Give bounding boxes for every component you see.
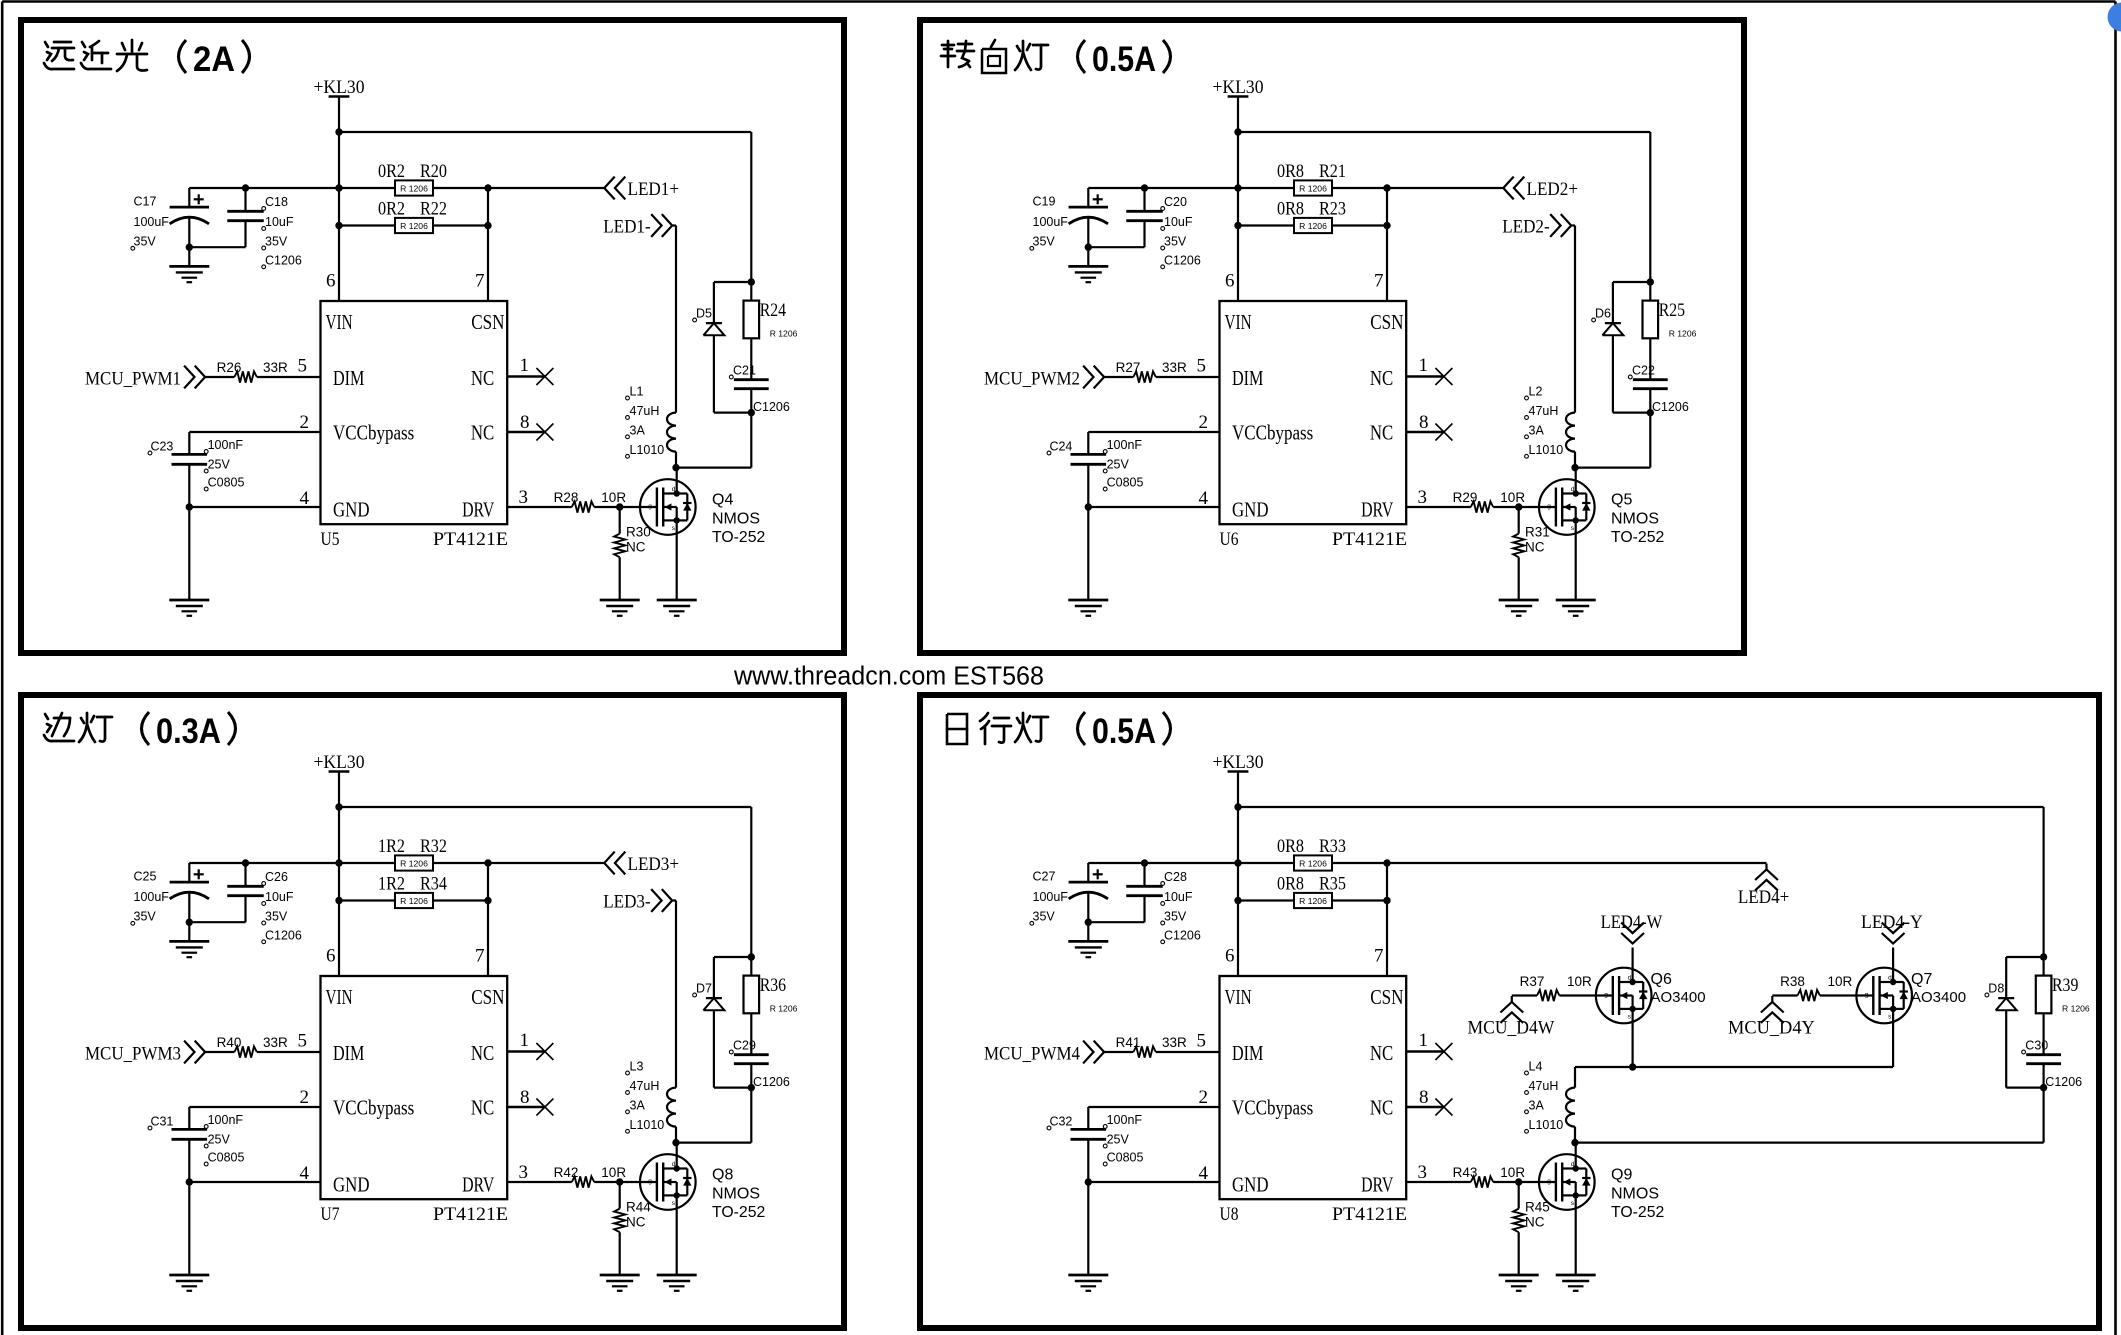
svg-text:C1206: C1206 [1652,400,1689,414]
svg-text:NC: NC [1370,421,1393,445]
svg-text:R41: R41 [1116,1035,1141,1050]
svg-text:0R8: 0R8 [1277,161,1304,182]
svg-text:25V: 25V [208,1133,231,1147]
svg-text:Q7: Q7 [1911,971,1932,988]
svg-text:C19: C19 [1033,195,1056,209]
svg-text:R 1206: R 1206 [1299,183,1327,193]
svg-text:+KL30: +KL30 [1213,77,1264,98]
svg-text:5: 5 [298,1031,308,1052]
svg-text:L1010: L1010 [1529,443,1564,457]
svg-text:CSN: CSN [471,310,504,334]
svg-text:LED2-: LED2- [1502,217,1550,238]
svg-text:LED3-: LED3- [603,892,651,913]
svg-text:0.3A: 0.3A [156,712,221,751]
svg-text:MCU_PWM1: MCU_PWM1 [85,369,181,390]
svg-text:C0805: C0805 [1107,476,1144,490]
svg-text:C1206: C1206 [265,928,302,942]
svg-text:C32: C32 [1049,1115,1072,1129]
svg-text:R 1206: R 1206 [1299,221,1327,231]
svg-text:5: 5 [1197,1031,1207,1052]
svg-text:NC: NC [1370,366,1393,390]
svg-text:L2: L2 [1529,385,1543,399]
svg-text:6: 6 [326,271,336,292]
svg-text:C1206: C1206 [753,1075,790,1089]
svg-text:25V: 25V [1107,1133,1130,1147]
svg-text:VCCbypass: VCCbypass [1232,421,1313,445]
svg-text:DIM: DIM [333,366,365,390]
svg-text:1: 1 [1419,1030,1429,1051]
svg-text:NC: NC [1370,1096,1393,1120]
svg-text:NC: NC [626,1215,646,1230]
svg-text:NMOS: NMOS [1611,1186,1659,1203]
svg-text:C1206: C1206 [2045,1075,2082,1089]
svg-text:R 1206: R 1206 [400,896,428,906]
svg-text:NC: NC [1525,540,1545,555]
svg-text:3A: 3A [630,1098,646,1112]
svg-text:DIM: DIM [1232,1041,1264,1065]
svg-text:d: d [672,486,676,493]
svg-text:C1206: C1206 [1164,928,1201,942]
svg-text:4: 4 [1199,488,1209,509]
svg-text:GND: GND [1232,498,1269,522]
svg-text:35V: 35V [265,235,288,249]
svg-text:AO3400: AO3400 [1651,989,1706,1006]
svg-text:g: g [648,1178,652,1185]
svg-text:R27: R27 [1116,360,1141,375]
svg-text:NMOS: NMOS [1611,511,1659,528]
svg-text:L1010: L1010 [630,443,665,457]
svg-text:25V: 25V [208,458,231,472]
svg-text:100nF: 100nF [208,438,244,452]
svg-text:7: 7 [475,946,485,967]
svg-text:2: 2 [1199,1087,1209,1108]
svg-text:R26: R26 [217,360,242,375]
svg-text:10R: 10R [1500,1165,1525,1180]
svg-text:DRV: DRV [1361,1173,1393,1197]
svg-text:33R: 33R [263,1035,288,1050]
svg-text:10uF: 10uF [1164,890,1193,904]
svg-text:6: 6 [326,946,336,967]
svg-text:Q5: Q5 [1611,492,1632,509]
svg-text:VIN: VIN [326,985,353,1009]
svg-text:GND: GND [333,1173,370,1197]
svg-text:C31: C31 [150,1115,173,1129]
svg-text:R38: R38 [1780,974,1805,989]
svg-text:7: 7 [1374,946,1384,967]
svg-text:U7: U7 [321,1204,340,1225]
svg-text:NC: NC [471,1041,494,1065]
svg-text:CSN: CSN [471,985,504,1009]
svg-text:10R: 10R [601,1165,626,1180]
svg-text:C0805: C0805 [208,1151,245,1165]
svg-text:R39: R39 [2052,975,2078,996]
svg-text:d: d [1571,1161,1575,1168]
svg-text:NC: NC [626,540,646,555]
svg-text:NC: NC [1525,1215,1545,1230]
svg-text:35V: 35V [1164,235,1187,249]
svg-text:L1010: L1010 [630,1118,665,1132]
svg-text:d: d [672,1161,676,1168]
svg-text:LED1-: LED1- [603,217,651,238]
svg-text:R23: R23 [1319,199,1346,220]
svg-text:d: d [1888,975,1892,982]
svg-text:7: 7 [475,271,485,292]
svg-text:R 1206: R 1206 [400,221,428,231]
svg-text:33R: 33R [263,360,288,375]
svg-text:R 1206: R 1206 [1299,896,1327,906]
svg-text:d: d [1628,975,1632,982]
svg-text:R24: R24 [760,300,787,321]
svg-text:g: g [1547,503,1551,510]
svg-text:100nF: 100nF [208,1113,244,1127]
svg-text:C27: C27 [1033,870,1056,884]
svg-text:U8: U8 [1220,1204,1239,1225]
svg-text:10uF: 10uF [265,215,294,229]
svg-text:35V: 35V [1164,910,1187,924]
svg-text:5: 5 [1197,356,1207,377]
svg-text:DIM: DIM [333,1041,365,1065]
svg-text:R36: R36 [760,975,786,996]
svg-text:47uH: 47uH [630,1079,660,1093]
svg-text:C17: C17 [134,195,157,209]
svg-text:C0805: C0805 [208,476,245,490]
svg-text:LED4+: LED4+ [1738,887,1790,908]
svg-text:Q4: Q4 [712,492,733,509]
svg-text:L3: L3 [630,1060,644,1074]
svg-text:3: 3 [1418,487,1428,508]
svg-text:1R2: 1R2 [378,874,405,895]
svg-text:U5: U5 [321,529,340,550]
svg-text:CSN: CSN [1370,310,1403,334]
svg-text:R21: R21 [1319,161,1346,182]
svg-text:C28: C28 [1164,870,1187,884]
svg-text:DRV: DRV [462,498,494,522]
svg-text:3A: 3A [1529,1098,1545,1112]
svg-text:3: 3 [519,487,529,508]
svg-text:NC: NC [471,1096,494,1120]
svg-text:25V: 25V [1107,458,1130,472]
svg-text:0R2: 0R2 [378,199,405,220]
svg-text:8: 8 [1419,1087,1429,1108]
svg-text:L1010: L1010 [1529,1118,1564,1132]
svg-text:100uF: 100uF [1033,890,1069,904]
svg-text:4: 4 [1199,1163,1209,1184]
svg-text:R42: R42 [554,1165,579,1180]
svg-text:g: g [648,503,652,510]
svg-text:DIM: DIM [1232,366,1264,390]
svg-text:6: 6 [1225,946,1235,967]
svg-text:0.5A: 0.5A [1092,712,1156,751]
svg-text:NC: NC [471,421,494,445]
svg-text:35V: 35V [1033,910,1056,924]
svg-text:R 1206: R 1206 [770,1004,798,1014]
svg-text:35V: 35V [134,910,157,924]
svg-text:LED1+: LED1+ [628,179,680,200]
svg-text:PT4121E: PT4121E [433,1204,508,1225]
svg-text:VIN: VIN [1225,310,1252,334]
svg-text:PT4121E: PT4121E [1332,529,1407,550]
svg-text:R43: R43 [1453,1165,1478,1180]
svg-text:C0805: C0805 [1107,1151,1144,1165]
svg-text:D6: D6 [1595,307,1611,321]
svg-text:R 1206: R 1206 [1299,858,1327,868]
svg-text:0R8: 0R8 [1277,836,1304,857]
svg-text:U6: U6 [1220,529,1239,550]
svg-text:TO-252: TO-252 [1611,1204,1664,1221]
svg-text:10R: 10R [601,490,626,505]
svg-text:LED4-W: LED4-W [1601,912,1663,933]
svg-text:0R2: 0R2 [378,161,405,182]
svg-text:MCU_PWM2: MCU_PWM2 [984,369,1080,390]
svg-text:R25: R25 [1659,300,1685,321]
svg-text:C26: C26 [265,870,288,884]
svg-text:2A: 2A [193,40,235,79]
svg-text:C30: C30 [2025,1039,2048,1053]
svg-text:10uF: 10uF [1164,215,1193,229]
svg-text:TO-252: TO-252 [712,529,765,546]
svg-text:R 1206: R 1206 [770,329,798,339]
svg-text:10R: 10R [1828,974,1853,989]
svg-text:100nF: 100nF [1107,438,1143,452]
svg-text:C21: C21 [733,364,756,378]
svg-text:VIN: VIN [326,310,353,334]
svg-text:R20: R20 [420,161,447,182]
svg-text:4: 4 [300,1163,310,1184]
svg-text:R 1206: R 1206 [400,858,428,868]
svg-text:47uH: 47uH [1529,404,1559,418]
svg-text:LED4-Y: LED4-Y [1861,912,1923,933]
svg-text:R35: R35 [1319,874,1346,895]
svg-text:10uF: 10uF [265,890,294,904]
svg-text:VIN: VIN [1225,985,1252,1009]
svg-text:0R8: 0R8 [1277,199,1304,220]
svg-text:35V: 35V [1033,235,1056,249]
svg-text:D5: D5 [696,307,712,321]
svg-text:47uH: 47uH [1529,1079,1559,1093]
svg-text:TO-252: TO-252 [712,1204,765,1221]
svg-text:PT4121E: PT4121E [433,529,508,550]
svg-text:MCU_D4W: MCU_D4W [1468,1018,1555,1039]
svg-text:C1206: C1206 [265,253,302,267]
svg-text:PT4121E: PT4121E [1332,1204,1407,1225]
svg-text:GND: GND [1232,1173,1269,1197]
svg-text:+KL30: +KL30 [314,77,365,98]
svg-text:DRV: DRV [462,1173,494,1197]
svg-text:2: 2 [1199,412,1209,433]
svg-text:35V: 35V [265,910,288,924]
svg-text:NC: NC [1370,1041,1393,1065]
svg-text:+KL30: +KL30 [1213,752,1264,773]
svg-text:GND: GND [333,498,370,522]
svg-text:L4: L4 [1529,1060,1543,1074]
svg-text:D8: D8 [1988,982,2004,996]
svg-text:C29: C29 [733,1039,756,1053]
svg-text:R37: R37 [1520,974,1545,989]
svg-text:Q8: Q8 [712,1167,733,1184]
svg-text:8: 8 [520,412,530,433]
svg-text:1: 1 [520,355,530,376]
svg-text:C20: C20 [1164,195,1187,209]
svg-text:VCCbypass: VCCbypass [1232,1096,1313,1120]
svg-text:L1: L1 [630,385,644,399]
svg-text:10R: 10R [1567,974,1592,989]
svg-text:NMOS: NMOS [712,511,760,528]
svg-text:100uF: 100uF [1033,215,1069,229]
svg-text:AO3400: AO3400 [1911,989,1966,1006]
svg-text:R 1206: R 1206 [400,183,428,193]
svg-text:6: 6 [1225,271,1235,292]
svg-text:www.threadcn.com EST568: www.threadcn.com EST568 [733,663,1044,691]
svg-text:LED2+: LED2+ [1527,179,1579,200]
svg-text:+KL30: +KL30 [314,752,365,773]
svg-text:3: 3 [1418,1162,1428,1183]
svg-text:R28: R28 [554,490,579,505]
svg-text:C24: C24 [1049,440,1072,454]
svg-text:R22: R22 [420,199,447,220]
svg-text:C23: C23 [150,440,173,454]
svg-text:100uF: 100uF [134,890,170,904]
svg-text:NC: NC [471,366,494,390]
svg-text:47uH: 47uH [630,404,660,418]
svg-text:R 1206: R 1206 [2062,1004,2090,1014]
svg-text:3A: 3A [630,423,646,437]
svg-text:R33: R33 [1319,836,1346,857]
svg-text:100nF: 100nF [1107,1113,1143,1127]
svg-text:1: 1 [1419,355,1429,376]
svg-text:d: d [1571,486,1575,493]
svg-text:1R2: 1R2 [378,836,405,857]
svg-text:10R: 10R [1500,490,1525,505]
svg-text:LED3+: LED3+ [628,854,680,875]
svg-text:0R8: 0R8 [1277,874,1304,895]
svg-text:VCCbypass: VCCbypass [333,1096,414,1120]
svg-text:R40: R40 [217,1035,242,1050]
svg-text:C22: C22 [1632,364,1655,378]
svg-text:MCU_D4Y: MCU_D4Y [1728,1018,1815,1039]
svg-text:3: 3 [519,1162,529,1183]
svg-text:1: 1 [520,1030,530,1051]
svg-text:D7: D7 [696,982,712,996]
svg-text:0.5A: 0.5A [1092,40,1156,79]
svg-text:33R: 33R [1162,360,1187,375]
svg-text:TO-252: TO-252 [1611,529,1664,546]
svg-text:Q6: Q6 [1651,971,1672,988]
svg-text:7: 7 [1374,271,1384,292]
svg-text:4: 4 [300,488,310,509]
svg-text:8: 8 [520,1087,530,1108]
svg-text:CSN: CSN [1370,985,1403,1009]
svg-text:DRV: DRV [1361,498,1393,522]
svg-text:R32: R32 [420,836,447,857]
svg-text:C25: C25 [134,870,157,884]
svg-text:8: 8 [1419,412,1429,433]
svg-text:Q9: Q9 [1611,1167,1632,1184]
svg-text:3A: 3A [1529,423,1545,437]
svg-text:2: 2 [300,1087,310,1108]
svg-text:C18: C18 [265,195,288,209]
svg-text:g: g [1547,1178,1551,1185]
svg-text:C1206: C1206 [753,400,790,414]
svg-text:5: 5 [298,356,308,377]
svg-text:35V: 35V [134,235,157,249]
svg-text:2: 2 [300,412,310,433]
svg-text:33R: 33R [1162,1035,1187,1050]
svg-text:100uF: 100uF [134,215,170,229]
svg-text:NMOS: NMOS [712,1186,760,1203]
svg-text:R34: R34 [420,874,447,895]
svg-text:C1206: C1206 [1164,253,1201,267]
svg-text:MCU_PWM4: MCU_PWM4 [984,1044,1080,1065]
svg-text:VCCbypass: VCCbypass [333,421,414,445]
svg-text:MCU_PWM3: MCU_PWM3 [85,1044,181,1065]
svg-text:R 1206: R 1206 [1669,329,1697,339]
svg-text:R29: R29 [1453,490,1478,505]
